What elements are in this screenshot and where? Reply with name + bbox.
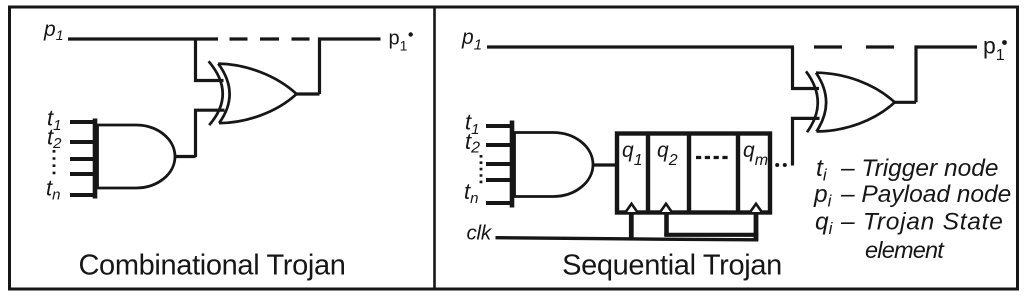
- svg-text:pi– Payload node: pi– Payload node: [813, 181, 1011, 211]
- svg-text:qi– Trojan State: qi– Trojan State: [815, 209, 1004, 239]
- svg-text:Combinational Trojan: Combinational Trojan: [78, 250, 345, 282]
- svg-text:element: element: [865, 237, 945, 263]
- svg-text:clk: clk: [467, 222, 493, 245]
- svg-text:Sequential Trojan: Sequential Trojan: [562, 250, 782, 282]
